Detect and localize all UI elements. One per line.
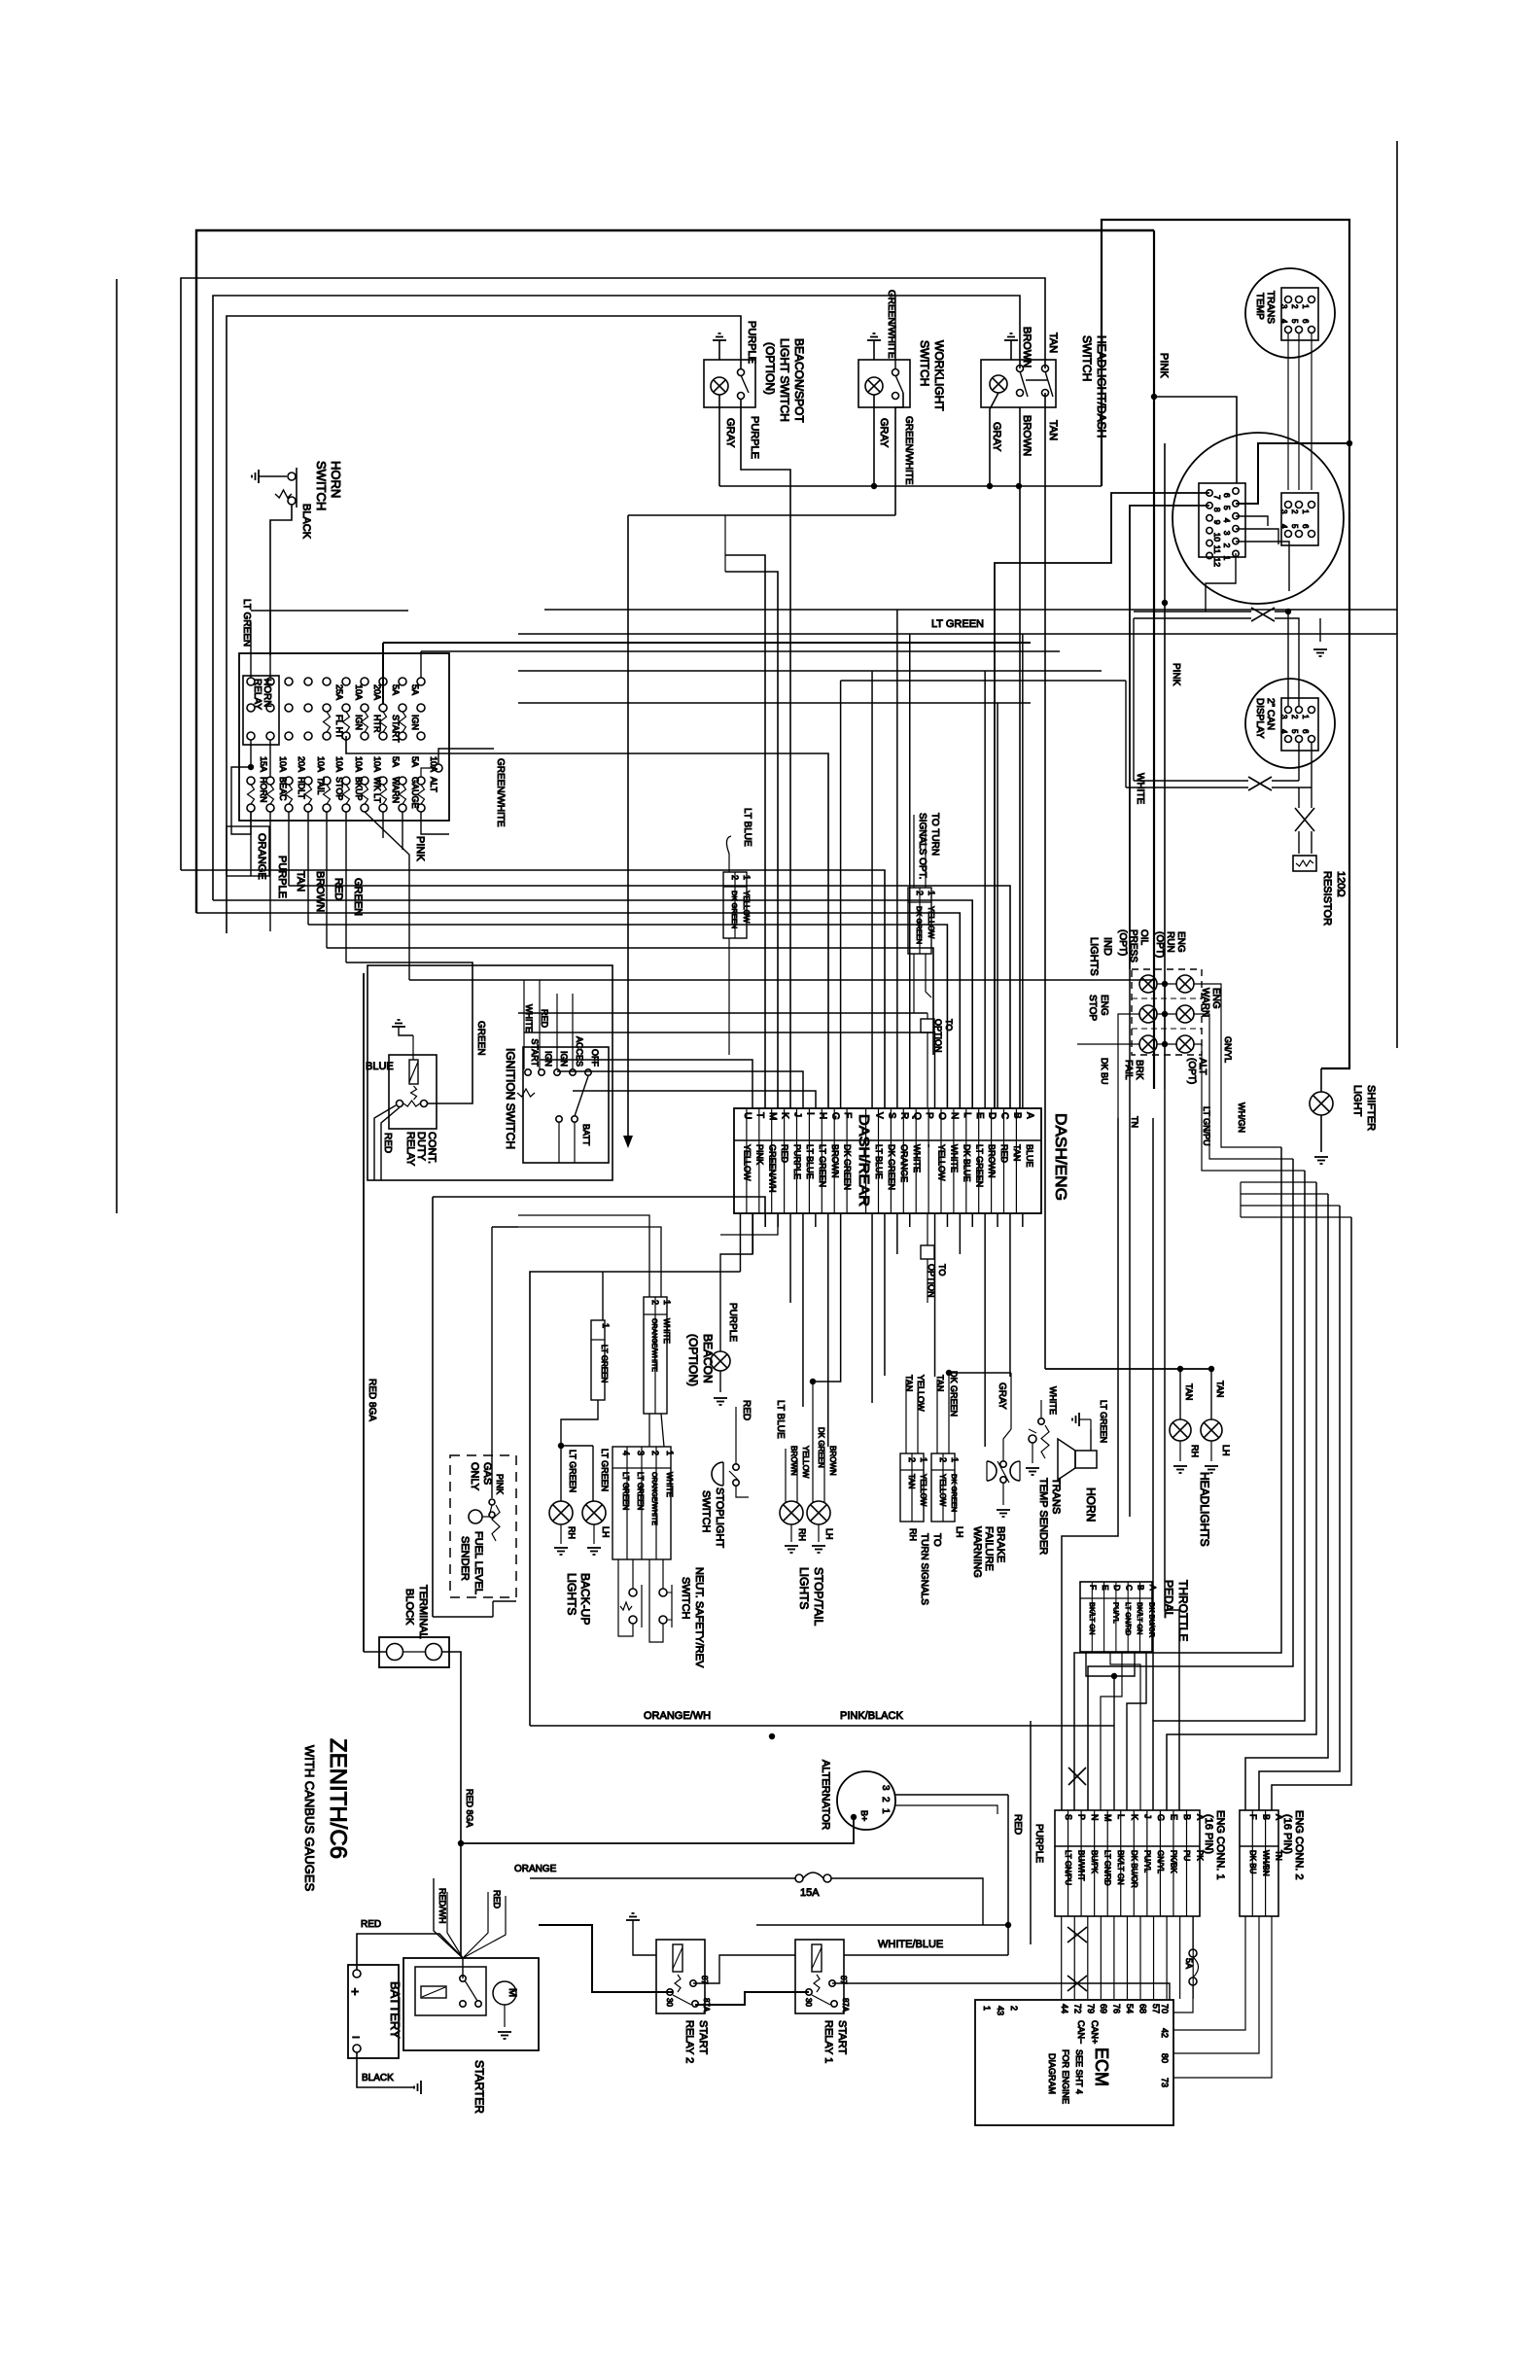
svg-text:SWITCH: SWITCH — [918, 340, 931, 386]
svg-text:YELLOW: YELLOW — [938, 1474, 947, 1507]
svg-text:BROWN: BROWN — [828, 1446, 837, 1476]
svg-text:ENG: ENG — [1099, 995, 1109, 1016]
svg-text:RUN: RUN — [1165, 931, 1175, 953]
svg-text:BRK: BRK — [1134, 1060, 1144, 1080]
svg-text:TAIL: TAIL — [316, 777, 326, 794]
wire green/white fuse right — [438, 749, 494, 764]
wire gray up — [1010, 1373, 1012, 1429]
svg-text:TEMP: TEMP — [1254, 293, 1265, 320]
svg-text:1: 1 — [1222, 556, 1232, 561]
svg-text:DK GREEN: DK GREEN — [950, 1474, 959, 1512]
svg-text:76: 76 — [1112, 2004, 1122, 2013]
svg-text:RED: RED — [1012, 1814, 1023, 1835]
svg-text:RED: RED — [540, 1009, 549, 1029]
svg-text:WK LT: WK LT — [372, 777, 382, 803]
ground cont duty — [392, 1020, 405, 1027]
wires small conns — [728, 938, 730, 1055]
headlight/dash switch — [981, 360, 1056, 407]
svg-text:30: 30 — [665, 1998, 674, 2007]
svg-text:2: 2 — [880, 1797, 891, 1802]
svg-text:CAN+: CAN+ — [1090, 2020, 1100, 2044]
svg-text:ECM: ECM — [1092, 2047, 1111, 2086]
wires fuse col down — [250, 812, 252, 876]
svg-text:HORN: HORN — [1084, 1487, 1098, 1522]
svg-text:(OPT): (OPT) — [1186, 1058, 1197, 1084]
svg-text:3: 3 — [1279, 509, 1288, 514]
svg-text:DK BU/OR: DK BU/OR — [1148, 1602, 1157, 1638]
svg-text:(OPT): (OPT) — [1154, 931, 1165, 958]
svg-text:BKUP: BKUP — [354, 777, 364, 801]
svg-text:LT GREEN: LT GREEN — [636, 1472, 645, 1510]
wires strip up — [871, 671, 873, 1108]
svg-text:FAIL: FAIL — [1123, 1060, 1134, 1080]
beacon/spot light switch — [704, 360, 755, 407]
svg-text:PINK: PINK — [495, 1474, 505, 1494]
wire green fuse to relay — [346, 962, 472, 1103]
bus y627 — [544, 609, 1397, 611]
svg-text:GRAY: GRAY — [878, 418, 890, 448]
connector turn signals opt — [908, 888, 931, 954]
svg-text:WHITE/BLUE: WHITE/BLUE — [878, 1939, 943, 1950]
svg-text:RED: RED — [332, 878, 344, 900]
svg-text:LH: LH — [824, 1528, 834, 1540]
gauge TRANS TEMP circle — [1245, 268, 1335, 358]
svg-text:STOPLIGHT: STOPLIGHT — [714, 1487, 725, 1548]
svg-text:M: M — [507, 1988, 518, 1997]
wire thick top bus to PINK — [196, 230, 1154, 913]
switch neut safety/rev — [629, 1589, 637, 1596]
svg-text:3: 3 — [1222, 531, 1232, 536]
wire can down twist — [1298, 743, 1300, 781]
svg-text:10A: 10A — [354, 684, 364, 700]
eng conn 2 wires down — [1173, 1916, 1245, 2030]
svg-text:1: 1 — [1301, 715, 1310, 719]
svg-text:TAN: TAN — [1047, 332, 1059, 353]
svg-text:GREEN/WHITE: GREEN/WHITE — [495, 758, 506, 827]
svg-text:WHITE: WHITE — [1048, 1386, 1058, 1415]
connector turn LH — [931, 1453, 955, 1522]
svg-text:RED: RED — [361, 1919, 381, 1930]
relay START RELAY 1 — [795, 1940, 844, 2013]
wire bus4 to beacon PURPLE — [227, 316, 741, 933]
svg-text:GRAY: GRAY — [724, 418, 736, 448]
svg-text:BROWN: BROWN — [789, 1446, 798, 1476]
6-pin connector right — [1281, 493, 1318, 545]
worklight switch — [858, 360, 910, 407]
svg-text:DASH/REAR: DASH/REAR — [856, 1114, 872, 1207]
svg-text:30: 30 — [804, 1998, 813, 2007]
wire nested corner b — [725, 572, 778, 1108]
bottom bus orange/wh pink/black — [530, 1725, 1114, 1727]
connector 2cell white orange/white — [644, 1297, 667, 1414]
svg-text:PINK: PINK — [1158, 353, 1170, 378]
bus y1042 — [518, 1012, 927, 1014]
svg-text:B+: B+ — [859, 1810, 869, 1821]
svg-text:LIGHT: LIGHT — [1351, 1085, 1363, 1117]
svg-text:RED 8GA: RED 8GA — [465, 1789, 474, 1828]
svg-text:42: 42 — [1160, 2028, 1170, 2038]
svg-text:TAN: TAN — [907, 1474, 916, 1489]
svg-text:5: 5 — [1290, 524, 1299, 529]
svg-text:LIGHTS: LIGHTS — [1088, 937, 1100, 976]
svg-text:PURPLE: PURPLE — [746, 321, 757, 364]
svg-text:(OPTION): (OPTION) — [763, 342, 777, 395]
connector 1 LT GREEN — [602, 1272, 604, 1320]
svg-text:PURPLE: PURPLE — [276, 856, 288, 898]
svg-text:PURPLE: PURPLE — [727, 1303, 738, 1342]
svg-text:1: 1 — [601, 1323, 611, 1328]
wire box fuel area — [432, 1197, 434, 1617]
svg-text:RED/WH: RED/WH — [437, 1888, 447, 1924]
throttle wires down — [1086, 1652, 1114, 1676]
svg-text:11: 11 — [1212, 545, 1222, 554]
svg-text:OIL: OIL — [1138, 929, 1149, 946]
svg-text:CAN−: CAN− — [1076, 2020, 1086, 2044]
svg-text:LIGHTS: LIGHTS — [565, 1573, 578, 1615]
wire relay bottom — [250, 740, 252, 767]
svg-text:RELAY 2: RELAY 2 — [683, 2020, 695, 2063]
svg-text:54: 54 — [1125, 2004, 1135, 2013]
svg-text:IGN: IGN — [543, 1051, 553, 1067]
wire 10A IGN down — [346, 736, 828, 1108]
svg-text:80: 80 — [1160, 2053, 1170, 2063]
svg-text:RESISTOR: RESISTOR — [1321, 871, 1333, 926]
svg-text:5: 5 — [1222, 506, 1232, 510]
svg-text:1: 1 — [982, 2006, 992, 2011]
svg-text:TAN: TAN — [295, 871, 306, 892]
svg-text:4: 4 — [621, 1451, 631, 1455]
battery — [348, 1965, 399, 2058]
svg-text:ENG: ENG — [1210, 988, 1221, 1009]
ind lights wires — [1157, 983, 1176, 985]
wire pink fuse bus — [409, 979, 1154, 981]
svg-text:73: 73 — [1160, 2078, 1170, 2087]
svg-text:BATT: BATT — [581, 1124, 591, 1146]
svg-text:LT GREEN: LT GREEN — [931, 618, 984, 630]
svg-text:WHITE: WHITE — [524, 1004, 534, 1032]
wire gauge pin7 stair — [995, 493, 1209, 1108]
svg-text:BEAC: BEAC — [278, 777, 288, 801]
svg-text:10: 10 — [1212, 533, 1222, 542]
svg-text:1: 1 — [662, 1300, 672, 1305]
svg-text:RELAY 1: RELAY 1 — [822, 2020, 834, 2063]
svg-text:79: 79 — [1086, 2004, 1096, 2013]
svg-text:PINK: PINK — [414, 836, 426, 861]
svg-text:10A: 10A — [372, 756, 382, 772]
wire left tall lower — [530, 1272, 741, 1726]
wire pin4 jog — [1236, 516, 1268, 526]
svg-text:LT GREEN: LT GREEN — [600, 1345, 609, 1382]
svg-text:1: 1 — [742, 875, 752, 880]
fuse bottom row — [247, 777, 255, 785]
batt wires down — [558, 1122, 560, 1163]
ind lights dashed box — [1132, 969, 1202, 1055]
svg-text:10A: 10A — [278, 756, 288, 772]
wire pin3 — [1236, 529, 1278, 544]
svg-text:ORANGE: ORANGE — [256, 833, 267, 880]
wire beacon gray down — [718, 395, 720, 486]
wire F dk green to stop/tail — [813, 1213, 841, 1382]
svg-text:3: 3 — [636, 1451, 646, 1455]
svg-text:5A: 5A — [391, 756, 401, 767]
svg-text:START: START — [836, 2020, 848, 2054]
wire pin5 jog to loop — [1236, 443, 1349, 504]
svg-text:6: 6 — [1301, 319, 1310, 324]
svg-text:B: B — [1261, 1814, 1271, 1820]
svg-text:TN: TN — [1130, 1116, 1139, 1128]
svg-text:TO: TO — [931, 1533, 942, 1547]
svg-text:BLOCK: BLOCK — [403, 1589, 415, 1626]
svg-text:2: 2 — [1290, 304, 1299, 309]
battery wires — [357, 1934, 463, 1970]
bundle crossing X — [1068, 1767, 1086, 1785]
svg-text:1: 1 — [880, 1808, 891, 1814]
svg-text:FL HT: FL HT — [334, 715, 344, 739]
stop/tail lights — [780, 1501, 803, 1524]
svg-text:2: 2 — [650, 1451, 660, 1455]
svg-text:PURPLE: PURPLE — [1033, 1824, 1044, 1863]
svg-text:(16 PIN): (16 PIN) — [1281, 1814, 1293, 1854]
svg-text:SWITCH: SWITCH — [314, 461, 329, 510]
svg-text:2: 2 — [1290, 509, 1299, 514]
svg-text:RED 8GA: RED 8GA — [367, 1379, 377, 1421]
svg-text:DK BU: DK BU — [1100, 1058, 1109, 1085]
brake failure warning — [987, 1461, 997, 1481]
12-pin connector — [1199, 483, 1245, 557]
svg-text:20A: 20A — [372, 684, 382, 700]
wire pin1 down — [1206, 553, 1236, 612]
gauge 2in CAN DISPLAY circle — [1245, 679, 1335, 768]
svg-text:LH: LH — [601, 1526, 611, 1538]
wire white twisted pair — [1134, 611, 1251, 612]
svg-text:+: + — [351, 1983, 359, 1999]
svg-text:ORANGE/WHITE: ORANGE/WHITE — [650, 1318, 657, 1372]
svg-text:DIAGRAM: DIAGRAM — [1047, 2053, 1057, 2094]
wires terminal block — [364, 1651, 387, 1653]
svg-text:ENG CONN. 1: ENG CONN. 1 — [1214, 1810, 1226, 1880]
svg-text:2: 2 — [907, 1457, 917, 1462]
svg-text:2: 2 — [1009, 2006, 1019, 2011]
svg-text:2: 2 — [1222, 543, 1232, 548]
left bus turns rightward — [181, 870, 885, 1108]
wire bus3 to headlight BROWN — [213, 296, 1020, 900]
svg-text:69: 69 — [1099, 2004, 1108, 2013]
relay CONT DUTY — [389, 1055, 437, 1129]
svg-text:TAN: TAN — [1215, 1381, 1225, 1397]
svg-text:ENG CONN. 2: ENG CONN. 2 — [1293, 1810, 1305, 1880]
TO OPTION square — [921, 1019, 934, 1032]
svg-text:HORN: HORN — [329, 461, 343, 498]
svg-text:7: 7 — [1212, 495, 1222, 500]
svg-text:LT BLUE: LT BLUE — [775, 1400, 786, 1439]
svg-text:WORKLIGHT: WORKLIGHT — [932, 340, 946, 411]
svg-text:3: 3 — [1279, 715, 1288, 719]
connector 4cell backup — [612, 1447, 671, 1559]
svg-text:LT GREEN: LT GREEN — [600, 1449, 610, 1491]
svg-text:START: START — [391, 715, 401, 743]
extra pin ALT — [435, 764, 442, 772]
svg-text:ONLY: ONLY — [469, 1462, 480, 1491]
backup lights — [558, 1443, 564, 1449]
svg-text:LT GREEN: LT GREEN — [621, 1472, 630, 1510]
connector DASH/REAR + DASH/ENG strip — [734, 1108, 1041, 1213]
bus y652 — [518, 633, 1397, 635]
svg-text:1: 1 — [665, 1451, 675, 1455]
bus y690 — [518, 670, 1102, 672]
svg-text:ORANGE/WHITE: ORANGE/WHITE — [650, 1472, 657, 1525]
wire red8ga down — [363, 973, 365, 1652]
svg-text:LIGHTS: LIGHTS — [797, 1567, 811, 1609]
connector ENG CONN. 2 (16 PIN) — [1240, 1810, 1278, 1916]
svg-text:RH: RH — [908, 1528, 918, 1541]
wire loop x1133 to gauge — [1102, 220, 1349, 1068]
sub box orange — [227, 826, 269, 876]
wire left rail — [116, 279, 118, 1213]
svg-text:E: E — [1101, 1585, 1110, 1591]
fuses row1 — [324, 712, 331, 732]
svg-text:5: 5 — [1290, 729, 1299, 734]
svg-text:WARN: WARN — [1200, 988, 1210, 1017]
svg-text:2: 2 — [650, 1300, 660, 1305]
TRANS TEMP connector — [1281, 288, 1318, 340]
wire pink2 vertical — [1164, 443, 1166, 1089]
wires relays — [693, 1955, 795, 1983]
svg-text:10A: 10A — [354, 756, 364, 772]
svg-text:GREEN: GREEN — [352, 878, 364, 916]
svg-text:YELLOW: YELLOW — [801, 1446, 810, 1479]
svg-text:5A: 5A — [1184, 1958, 1194, 1969]
svg-text:BROWN: BROWN — [314, 871, 326, 912]
svg-text:87A: 87A — [841, 1998, 850, 2012]
svg-text:LH: LH — [955, 1526, 964, 1538]
ignition contacts — [525, 1069, 531, 1075]
connector ENG CONN. 1 (16 PIN) — [1055, 1810, 1200, 1916]
svg-text:3: 3 — [1279, 304, 1288, 309]
svg-text:YELLOW: YELLOW — [927, 906, 935, 939]
svg-text:RED: RED — [741, 1400, 752, 1420]
svg-text:START: START — [697, 2020, 709, 2054]
wire pink to gauge pin6 — [1154, 397, 1237, 483]
svg-text:BLACK: BLACK — [362, 2073, 394, 2083]
svg-text:2: 2 — [1290, 715, 1299, 719]
svg-text:2: 2 — [938, 1457, 948, 1462]
svg-text:4: 4 — [1279, 524, 1288, 529]
terminal block — [379, 1637, 449, 1667]
relay START RELAY 2 — [656, 1940, 705, 2013]
wire orange 15A fuse — [530, 1877, 795, 1879]
ground start relay 2 — [626, 1913, 640, 1920]
svg-text:GRAY: GRAY — [991, 422, 1002, 452]
svg-text:RH: RH — [567, 1526, 577, 1539]
switch stoplight — [712, 1462, 723, 1486]
svg-text:6: 6 — [1222, 493, 1232, 498]
svg-text:NEUT. SAFETY/REV: NEUT. SAFETY/REV — [693, 1567, 705, 1668]
svg-text:12: 12 — [1212, 558, 1222, 568]
svg-text:BLACK: BLACK — [300, 504, 312, 540]
svg-text:RED: RED — [492, 1890, 502, 1909]
svg-text:BEACON/SPOT: BEACON/SPOT — [792, 338, 806, 423]
svg-text:1: 1 — [919, 1457, 928, 1462]
fuse 5A to ECM — [1192, 1916, 1194, 1949]
svg-text:GREEN/WHITE: GREEN/WHITE — [886, 290, 896, 359]
svg-text:SEE SHT 4: SEE SHT 4 — [1074, 2049, 1084, 2094]
svg-text:10A: 10A — [334, 756, 344, 772]
svg-text:GREEN: GREEN — [475, 1021, 486, 1056]
svg-text:TURN SIGNALS: TURN SIGNALS — [919, 1533, 929, 1605]
wire gauge pin8 stair — [1130, 506, 1209, 969]
svg-text:RED: RED — [382, 1133, 393, 1153]
wire worklight gray down — [873, 395, 875, 486]
svg-text:BATTERY: BATTERY — [388, 1981, 402, 2039]
right bundle wires — [1074, 1147, 1281, 1810]
CAN display connector — [1281, 698, 1318, 751]
left bundle wires to eng conn — [1062, 1118, 1118, 1810]
svg-text:YELLOW: YELLOW — [919, 1474, 927, 1507]
svg-text:ACCES: ACCES — [575, 1036, 584, 1067]
svg-text:RELAY: RELAY — [404, 1132, 416, 1167]
svg-text:ALTERNATOR: ALTERNATOR — [820, 1760, 831, 1830]
svg-text:72: 72 — [1072, 2004, 1082, 2013]
svg-text:LT GREEN: LT GREEN — [1099, 1400, 1108, 1443]
wires strip up bent — [540, 1060, 752, 1108]
svg-text:GN/YL: GN/YL — [1223, 1036, 1233, 1063]
svg-text:OFF: OFF — [590, 1049, 600, 1067]
svg-text:SENDER: SENDER — [459, 1536, 471, 1581]
svg-text:ZENITH/C6: ZENITH/C6 — [325, 1738, 351, 1859]
svg-text:WH/GN: WH/GN — [1237, 1102, 1246, 1133]
svg-text:4: 4 — [1279, 319, 1288, 324]
lamp beacon option — [711, 1351, 730, 1371]
svg-text:BROWN: BROWN — [1021, 327, 1032, 367]
svg-text:LT GREEN: LT GREEN — [568, 1450, 577, 1492]
svg-text:STARTER: STARTER — [472, 2060, 486, 2114]
trans temp sender — [1029, 1435, 1036, 1443]
svg-text:ORANGE/WH: ORANGE/WH — [644, 1710, 711, 1722]
svg-text:GRAY: GRAY — [997, 1382, 1007, 1410]
svg-text:PURPLE: PURPLE — [749, 416, 760, 459]
svg-text:SWITCH: SWITCH — [700, 1490, 712, 1532]
svg-text:FAILURE: FAILURE — [983, 1526, 995, 1571]
svg-text:120Ω: 120Ω — [1335, 871, 1347, 897]
ignition feed wires — [523, 980, 525, 1069]
svg-text:5A: 5A — [410, 684, 420, 695]
svg-text:TO: TO — [944, 1019, 954, 1031]
svg-text:F: F — [1089, 1585, 1099, 1590]
ignition enclosure — [367, 965, 612, 1180]
svg-text:GAS: GAS — [481, 1462, 493, 1485]
svg-text:15A: 15A — [259, 756, 268, 772]
svg-text:TO TURN: TO TURN — [929, 813, 940, 856]
svg-text:DASH/ENG: DASH/ENG — [1052, 1113, 1068, 1201]
svg-text:5: 5 — [1290, 319, 1299, 324]
svg-text:5A: 5A — [410, 756, 420, 767]
svg-text:BRAKE: BRAKE — [995, 1526, 1006, 1562]
svg-text:GAUGE: GAUGE — [410, 777, 420, 809]
svg-text:STOP/TAIL: STOP/TAIL — [812, 1567, 825, 1627]
wire beacon purple down-jog — [741, 399, 790, 1108]
svg-text:2: 2 — [730, 875, 740, 880]
svg-text:70: 70 — [1160, 2004, 1170, 2013]
svg-text:1: 1 — [927, 891, 936, 895]
svg-text:RH: RH — [1190, 1445, 1200, 1457]
svg-text:5A: 5A — [391, 684, 401, 695]
svg-text:1: 1 — [1301, 304, 1310, 309]
svg-text:A: A — [1024, 1112, 1034, 1119]
svg-text:2" CAN: 2" CAN — [1265, 698, 1276, 730]
alternator wires — [894, 1794, 1008, 1796]
wire gray bus — [719, 485, 1102, 487]
svg-text:3: 3 — [880, 1785, 891, 1791]
